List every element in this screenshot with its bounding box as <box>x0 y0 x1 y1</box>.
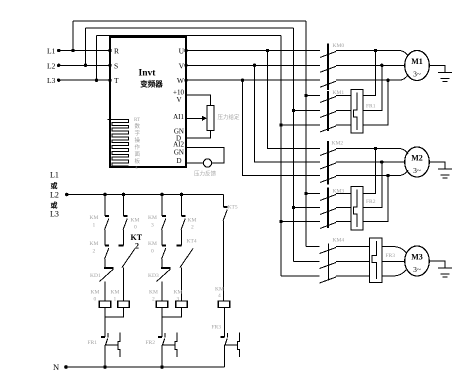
svg-text:KM: KM <box>90 241 99 247</box>
thermal contact FR1 <box>101 333 120 358</box>
wire KM1 out top <box>336 95 351 97</box>
contact KM3 aux <box>162 216 166 230</box>
branch3 upper wire <box>161 195 163 217</box>
wire L3 bypass riser <box>96 36 98 81</box>
svg-text:0: 0 <box>134 225 137 231</box>
junction drop2 KM1 <box>292 109 295 112</box>
wire branch4 mid <box>181 230 183 246</box>
pin T dot <box>108 79 111 82</box>
wire KM3 out mid <box>336 207 351 209</box>
junction V riser <box>253 64 256 67</box>
svg-text:数: 数 <box>135 122 141 130</box>
svg-text:2: 2 <box>191 225 194 231</box>
svg-text:0: 0 <box>151 249 154 255</box>
svg-text:AI1: AI1 <box>173 113 184 121</box>
junction M2 lead bottom <box>386 174 389 177</box>
contactor KM4 blade 1 <box>320 248 337 254</box>
wire top bypass L3 <box>97 35 282 37</box>
wire KM0 out top to motor M1 <box>336 51 408 57</box>
svg-text:M2: M2 <box>411 154 423 163</box>
svg-text:KM: KM <box>174 290 183 296</box>
svg-text:T: T <box>114 76 119 85</box>
wire FR1 to riser bottom <box>363 80 388 125</box>
svg-text:KT5: KT5 <box>228 205 238 211</box>
svg-text:RT: RT <box>134 118 140 123</box>
svg-text:2: 2 <box>152 297 155 303</box>
branch5 upper wire <box>223 195 225 208</box>
wire branch1 mid1 <box>104 230 106 246</box>
svg-text:S: S <box>114 61 118 70</box>
contactor KM1 bar <box>327 91 329 131</box>
wire L1 bypass riser <box>72 21 74 51</box>
wire W riser to KM2 <box>243 80 321 175</box>
contact KD1 <box>100 268 114 282</box>
pin R dot <box>108 49 111 52</box>
contact KT4 timed <box>177 246 194 268</box>
svg-text:1: 1 <box>93 223 96 229</box>
svg-text:FR2: FR2 <box>146 340 156 346</box>
svg-text:W: W <box>177 76 185 85</box>
potentiometer pressure-set body <box>207 106 214 131</box>
svg-text:L3: L3 <box>47 76 56 85</box>
svg-text:或: 或 <box>51 201 58 210</box>
wire V riser to KM2 <box>255 65 321 162</box>
coil KM4 <box>218 301 230 308</box>
svg-text:3: 3 <box>151 223 154 229</box>
svg-text:3~: 3~ <box>413 166 421 175</box>
svg-text:M3: M3 <box>411 253 423 262</box>
svg-text:V: V <box>179 61 185 70</box>
contactor KM4 bar <box>328 244 330 281</box>
contact KM0 aux <box>123 216 127 230</box>
svg-text:或: 或 <box>51 181 58 190</box>
svg-text:KM: KM <box>149 290 158 296</box>
wire GND to pressure sensor <box>186 162 203 164</box>
wire branch3 to N <box>161 345 163 367</box>
svg-text:KD1: KD1 <box>90 273 101 279</box>
wire branch1 to coil KM0 <box>104 282 106 302</box>
wire KM3 feed bottom <box>281 221 320 223</box>
junction M1 lead mid <box>380 64 383 67</box>
junction M1 lead top <box>374 49 377 52</box>
wire KM1 feed top <box>306 95 320 97</box>
inverter U1 box <box>110 37 186 167</box>
svg-text:4: 4 <box>218 293 221 299</box>
contactor KM3 bar <box>327 188 329 229</box>
wire KM4 out top <box>336 246 370 248</box>
wire inverter output V <box>186 64 320 66</box>
thermal contact FR3 <box>221 333 240 358</box>
wire AI1 wiper <box>186 117 202 119</box>
svg-text:KM: KM <box>111 290 120 296</box>
svg-text:KM: KM <box>90 215 99 221</box>
contact KD3 <box>157 268 171 282</box>
svg-text:KM2: KM2 <box>332 141 344 147</box>
contact KM0 aux b <box>162 246 166 260</box>
pin V dot <box>184 64 187 67</box>
wire KM1 out bottom <box>336 124 351 126</box>
wire KM2 out bottom to motor M2 <box>336 170 408 176</box>
ground for M2 <box>429 162 452 178</box>
svg-text:KM4: KM4 <box>333 238 345 244</box>
wire KM3 feed top <box>306 193 320 195</box>
overload relay FR2 heater element <box>353 190 357 228</box>
pressure feedback sensor circle <box>203 159 211 167</box>
thermal contact FR2 <box>158 333 177 358</box>
contactor KM4 blade 2 <box>320 263 337 269</box>
junction branch3 top <box>160 193 164 197</box>
motor M2 circle <box>405 147 430 177</box>
overload relay FR1 body <box>351 90 363 134</box>
wire KM3 out top <box>336 193 351 195</box>
junction drop3 KM1 <box>279 123 282 126</box>
wire KM4 feed mid <box>294 261 320 263</box>
junction drop1 KM3 <box>304 192 307 195</box>
svg-text:KM: KM <box>148 215 157 221</box>
wire +10V to potentiometer top <box>186 95 211 106</box>
contact KM2 aux <box>105 246 109 260</box>
junction branch4 top <box>180 193 184 197</box>
wire branch3 to coil KM2 <box>161 282 163 302</box>
overload relay FR3 body <box>370 238 383 283</box>
wire AI2 loop <box>186 147 224 163</box>
wire branch3 mid2 <box>161 259 163 268</box>
junction L1 riser <box>71 49 74 52</box>
wire mains drop 1 <box>305 21 307 247</box>
wire L3 input <box>59 79 111 81</box>
wire KM4 feed bottom <box>281 275 320 277</box>
svg-text:AI2: AI2 <box>173 141 184 149</box>
wire KM2 out top to motor M2 <box>336 149 408 155</box>
contactor KM3 blade 3 <box>320 223 336 229</box>
wire branch4 to coil KM3 <box>181 268 183 302</box>
wire FR1 to riser mid <box>363 65 382 110</box>
contact KM2 aux b <box>181 216 185 230</box>
svg-text:L1: L1 <box>50 171 59 180</box>
svg-text:KD3: KD3 <box>148 273 159 279</box>
svg-text:s: s <box>136 166 138 171</box>
svg-text:GN: GN <box>174 149 184 157</box>
svg-text:KM0: KM0 <box>333 43 345 49</box>
contactor KM1 blade 1 <box>320 97 336 103</box>
svg-text:板: 板 <box>135 157 141 165</box>
junction branch2 top <box>122 193 126 197</box>
svg-text:FR3: FR3 <box>212 325 222 331</box>
wire branch5 to N rail end <box>224 345 226 367</box>
svg-text:FR3: FR3 <box>386 253 396 259</box>
coil KM1 <box>118 301 130 308</box>
wire KM4 out bottom <box>336 275 370 277</box>
contactor KM4 blade 3 <box>320 277 337 283</box>
junction drop2 KM3 <box>292 206 295 209</box>
contactor KM1 blade 2 <box>320 112 336 118</box>
overload relay FR2 body <box>351 187 363 231</box>
wire branch5 long <box>223 221 225 302</box>
svg-text:L3: L3 <box>50 210 59 219</box>
node control rail start <box>65 193 69 197</box>
node L3 terminal <box>57 79 60 82</box>
wire FR1 to riser top <box>363 51 376 96</box>
svg-text:压力给定: 压力给定 <box>218 113 241 121</box>
wire FR2 to riser top <box>363 149 376 194</box>
svg-text:字: 字 <box>135 129 141 137</box>
overload relay FR1 heater element <box>353 93 357 131</box>
branch1 upper wire <box>104 195 106 217</box>
motor M3 circle <box>405 246 430 276</box>
svg-text:V: V <box>176 96 181 104</box>
svg-text:KM: KM <box>215 287 224 293</box>
wire FR2 to riser bottom <box>363 176 388 222</box>
contactor KM3 blade 2 <box>320 209 336 215</box>
wire L1 input <box>59 50 111 52</box>
svg-text:KM1: KM1 <box>333 90 345 96</box>
svg-text:L1: L1 <box>47 47 56 56</box>
wire branch2 to coil KM1 <box>123 268 125 302</box>
junction branch1 N <box>103 365 107 369</box>
svg-text:R: R <box>114 47 119 56</box>
svg-text:3~: 3~ <box>413 70 421 79</box>
coil KM2 <box>156 301 168 308</box>
contactor KM2 blade 2 <box>320 163 336 169</box>
wire L2 input <box>59 64 111 66</box>
svg-text:面: 面 <box>135 151 141 158</box>
wire mains drop 2 <box>293 28 295 262</box>
svg-text:M1: M1 <box>411 57 423 66</box>
contact KT2 timed <box>119 246 136 268</box>
contact KT5 <box>223 207 227 221</box>
svg-text:变频器: 变频器 <box>140 79 163 89</box>
svg-text:FR2: FR2 <box>366 199 376 205</box>
branch2 upper wire <box>123 195 125 217</box>
junction M2 lead top <box>374 147 377 150</box>
wire KM4 feed top <box>306 246 320 248</box>
control top rail <box>67 194 224 196</box>
wire FR3 to motor M3 top <box>382 247 406 253</box>
wire KM3 feed mid <box>294 207 321 209</box>
svg-text:Invt: Invt <box>139 69 157 79</box>
wire KM1 feed bottom <box>281 124 320 126</box>
wire potentiometer bottom to GND <box>186 131 211 139</box>
wire FR2 to riser mid <box>363 162 382 208</box>
wire FR3 to motor M3 bottom <box>382 270 406 276</box>
svg-text:作: 作 <box>135 143 141 151</box>
wire below coil KM0 <box>104 308 106 338</box>
wire KM0 out mid to motor M1 <box>336 64 405 66</box>
junction drop3 KM3 <box>279 220 282 223</box>
arrowhead AI1 wiper <box>202 116 207 121</box>
wire below coil KM4 <box>224 308 226 338</box>
contactor KM2 blade 3 <box>320 177 336 183</box>
svg-text:KM: KM <box>148 241 157 247</box>
svg-text:3~: 3~ <box>413 265 421 274</box>
wire top bypass L2 <box>86 27 294 29</box>
wire branch4 join branch3 <box>162 308 182 318</box>
svg-text:0: 0 <box>94 297 97 303</box>
junction branch3 N <box>160 365 164 369</box>
junction drop1 KM1 <box>304 94 307 97</box>
svg-text:KM: KM <box>188 218 197 224</box>
svg-text:N: N <box>53 362 59 372</box>
junction U riser <box>266 49 269 52</box>
pin W dot <box>184 79 187 82</box>
svg-text:2: 2 <box>93 249 96 255</box>
svg-text:操: 操 <box>135 136 141 144</box>
resistor meander inside inverter <box>108 120 129 166</box>
coil KM3 <box>176 301 188 308</box>
wire branch1 mid2 <box>104 259 106 268</box>
pin S dot <box>108 64 111 67</box>
svg-text:2: 2 <box>135 242 139 251</box>
ground for M3 <box>429 261 452 277</box>
wire branch2 mid <box>123 230 125 246</box>
svg-text:3: 3 <box>177 297 180 303</box>
svg-text:1: 1 <box>114 297 117 303</box>
motor M1 circle <box>405 51 430 81</box>
wire inverter output U <box>186 50 320 52</box>
svg-text:L2: L2 <box>50 191 59 200</box>
junction branch1 top <box>103 193 107 197</box>
wire KM1 out mid <box>336 110 351 112</box>
wire FR3 to motor M3 mid <box>382 261 405 263</box>
svg-text:KM: KM <box>131 218 140 224</box>
junction L2 riser <box>84 64 87 67</box>
wire branch1 to N <box>104 345 106 367</box>
control N rail <box>66 366 225 368</box>
contactor KM3 blade 1 <box>320 195 336 201</box>
wire KM3 out bottom <box>336 221 351 223</box>
contactor KM0 bar <box>327 44 329 91</box>
node L2 terminal <box>57 64 60 67</box>
svg-text:FR1: FR1 <box>366 104 376 110</box>
branch4 upper wire <box>181 195 183 217</box>
contactor KM2 bar <box>327 141 329 185</box>
junction M2 lead mid <box>380 160 383 163</box>
junction L3 riser <box>95 79 98 82</box>
node N terminal <box>64 365 68 369</box>
coil KM0 <box>99 301 111 308</box>
wire KM4 out mid <box>336 261 370 263</box>
wire KM2 out mid to motor M2 <box>336 161 405 163</box>
svg-text:D: D <box>176 157 181 165</box>
wire U riser to KM2 <box>268 51 321 149</box>
wire L2 bypass riser <box>85 28 87 65</box>
contactor KM0 blade 2 <box>320 66 336 72</box>
wire KM1 feed mid <box>294 110 321 112</box>
junction dots power section <box>57 49 390 223</box>
pin U dot <box>184 49 187 52</box>
contactor KM0 blade 1 <box>320 52 336 58</box>
wire branch2 join branch1 <box>105 308 124 318</box>
svg-text:L2: L2 <box>47 61 56 70</box>
svg-text:KM: KM <box>91 290 100 296</box>
wire branch3 mid1 <box>161 230 163 246</box>
svg-text:FR1: FR1 <box>88 340 98 346</box>
node L1 terminal <box>57 49 60 52</box>
wire mains drop 3 <box>280 36 282 277</box>
svg-text:KM3: KM3 <box>333 189 345 195</box>
contact KM1 aux <box>105 216 109 230</box>
wire top bypass L1 <box>73 20 306 22</box>
svg-text:U: U <box>179 47 185 56</box>
svg-text:压力反馈: 压力反馈 <box>194 170 217 178</box>
wire KM0 out bottom to motor M1 <box>336 75 408 81</box>
contactor KM2 blade 1 <box>320 150 336 156</box>
ground for M1 <box>429 66 452 82</box>
junction W riser <box>241 79 244 82</box>
contactor KM1 blade 3 <box>320 126 336 132</box>
wire below coil KM2 <box>161 308 163 338</box>
svg-text:KT4: KT4 <box>187 239 197 245</box>
contactor KM0 blade 3 <box>320 81 336 87</box>
overload relay FR3 heater element <box>372 241 377 279</box>
junction M1 lead bottom <box>386 79 389 82</box>
wire inverter output W <box>186 79 320 81</box>
